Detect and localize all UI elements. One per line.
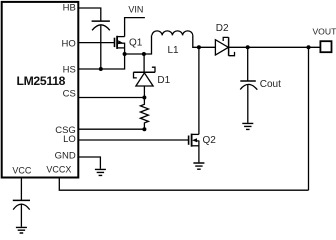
wire vcc cap to ground (20, 204, 22, 226)
svg-text:HS: HS (63, 65, 76, 76)
resistor R-sense (140, 98, 148, 130)
svg-text:D1: D1 (157, 75, 170, 86)
transistor Q2 channel bar (191, 134, 193, 147)
capacitor C-boot bottom curved plate (92, 25, 110, 31)
wire Q1 drain to VIN (125, 18, 145, 37)
wire HS pin to switch node (78, 54, 124, 69)
capacitor Cout bottom curved plate (240, 84, 257, 89)
svg-text:LM25118: LM25118 (16, 74, 65, 88)
svg-text:VCC: VCC (12, 165, 32, 175)
svg-text:Q1: Q1 (129, 38, 143, 49)
capacitor C-vcc bottom curved plate (13, 204, 30, 209)
diode D2 triangle (215, 40, 228, 55)
svg-text:CS: CS (63, 89, 76, 100)
wire VCCX pin to output return (59, 178, 308, 191)
junction dot Cout (246, 45, 250, 49)
transistor Q1 gate bar (114, 38, 116, 47)
diode D2 schottky top hook (223, 37, 228, 41)
transistor Q1 body stub (117, 42, 125, 44)
capacitor Cout top plate (240, 80, 256, 82)
svg-text:HO: HO (62, 39, 76, 50)
svg-text:VCCX: VCCX (46, 165, 71, 175)
diode D1 cathode lead (143, 54, 145, 72)
wire rail to Cout (247, 47, 249, 80)
wire Q1 source to switch node (124, 43, 126, 54)
node VOUT terminal box (320, 41, 331, 52)
wire Q2 source to ground (198, 141, 200, 163)
wire LO pin to Q2 gate (78, 139, 188, 141)
wire VCC pin to cap (20, 178, 22, 201)
ground vcc (16, 227, 27, 233)
diode D1 triangle (136, 73, 153, 86)
svg-text:VIN: VIN (128, 5, 143, 15)
junction dot CSG/resistor (142, 127, 146, 131)
junction dot VOUT node (307, 45, 311, 49)
wire L1 right lead to rail (193, 35, 216, 47)
inductor L1 (152, 31, 193, 35)
wire bootstrap cap to HS node (100, 25, 102, 69)
wire Cout to ground (247, 85, 249, 123)
transistor Q1 source stub (117, 47, 125, 49)
svg-text:HB: HB (63, 2, 76, 13)
svg-text:Q2: Q2 (203, 135, 217, 146)
diode D1 anode lead (143, 86, 145, 98)
ground Cout (242, 123, 253, 129)
transistor Q2 gate bar (188, 136, 190, 145)
svg-text:Cout: Cout (260, 79, 281, 90)
svg-text:LO: LO (63, 134, 76, 145)
wire output return vertical (308, 47, 310, 190)
wire Q2 drain up to rail (198, 47, 200, 134)
junction dot CS/D1/resistor (142, 96, 146, 100)
transistor Q2 source stub (192, 145, 199, 147)
svg-text:L1: L1 (167, 45, 179, 56)
transistor Q1 channel bar (116, 36, 118, 49)
ground Q2 (193, 163, 204, 169)
diode D1 schottky right hook (152, 67, 155, 72)
svg-text:VOUT: VOUT (312, 26, 336, 36)
wire GND pin to ground (78, 157, 100, 169)
diode D2 schottky bottom hook (229, 52, 235, 56)
wire HB pin to bootstrap cap (78, 8, 101, 21)
diode D1 schottky left hook (134, 72, 137, 78)
transistor Q2 drain stub (192, 133, 199, 135)
diode D1 schottky bar (133, 71, 155, 73)
op-amp U1 LM25118 IC body (2, 2, 79, 178)
capacitor C-boot top plate (92, 20, 110, 22)
wire CSG pin to resistor (78, 128, 144, 130)
wire output rail (229, 46, 321, 48)
junction dot L1/Q2/D2 (197, 45, 201, 49)
transistor Q2 body stub (196, 140, 199, 142)
wire HO pin to Q1 gate (78, 42, 114, 44)
capacitor C-vcc top plate (13, 199, 30, 201)
transistor Q2 arrow (192, 138, 197, 142)
transistor Q1 drain stub (117, 36, 125, 38)
wire switch node to L1 (125, 35, 152, 54)
svg-text:D2: D2 (216, 23, 229, 34)
ground GND pin (95, 169, 106, 175)
diode D2 schottky bar (228, 37, 230, 56)
junction dot Q1 source/HS (123, 52, 127, 56)
junction dot cap/HS (99, 67, 103, 71)
transistor Q1 arrow (118, 40, 123, 44)
junction dot D1 cathode (142, 52, 146, 56)
svg-text:GND: GND (55, 151, 76, 162)
wire CS pin to D1 anode (78, 97, 144, 99)
